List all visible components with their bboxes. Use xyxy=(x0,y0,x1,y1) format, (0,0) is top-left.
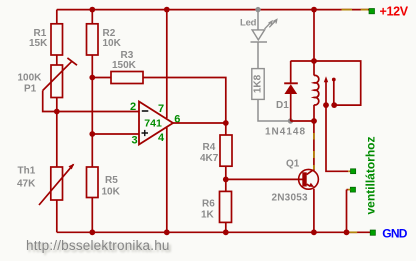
node R5 rail junction xyxy=(89,229,95,235)
node pin4 rail junction xyxy=(164,229,170,235)
watermark bsselektronika.hu xyxy=(26,238,172,255)
wire R3 right feedback xyxy=(143,78,226,124)
wire R2 bottom xyxy=(91,55,93,78)
wire pin7 supply xyxy=(166,10,168,119)
svg-text:2N3053: 2N3053 xyxy=(272,192,308,203)
wire pin3 net xyxy=(92,133,139,135)
wire R5 bottom xyxy=(91,198,93,233)
wire R4 bottom xyxy=(225,166,227,179)
relay contact fixed xyxy=(332,78,336,106)
wire D1 anode xyxy=(290,93,292,121)
node P1/Th1/pin2 junction xyxy=(54,109,60,115)
terminal GND xyxy=(370,226,408,240)
wire R1 top xyxy=(56,10,58,24)
node R6 rail junction xyxy=(223,229,229,235)
node contact2 junction xyxy=(331,102,337,108)
op-amp U1 741 xyxy=(130,101,180,147)
wire 1K8 bottom xyxy=(258,99,291,121)
svg-text:7: 7 xyxy=(158,103,164,115)
node LED/D1 junction xyxy=(288,118,293,123)
terminal fan - xyxy=(350,187,355,192)
wire R3 left xyxy=(92,77,111,79)
svg-text:R5: R5 xyxy=(105,175,118,186)
resistor R3 150K xyxy=(111,50,143,83)
resistor R2 10K xyxy=(87,24,122,55)
wire R6 bottom xyxy=(225,222,227,232)
svg-text:15K: 15K xyxy=(29,38,48,49)
svg-text:100K: 100K xyxy=(18,73,43,84)
resistor R1 15K xyxy=(29,24,63,55)
potentiometer P1 100K xyxy=(18,58,78,98)
svg-text:Th1: Th1 xyxy=(18,165,36,176)
wire op-amp output xyxy=(173,122,226,124)
resistor R6 1K xyxy=(201,191,232,222)
node R4/R6/base junction xyxy=(223,177,229,183)
svg-text:4K7: 4K7 xyxy=(200,153,219,164)
wire D1 anode to coil bottom xyxy=(291,120,315,122)
wire P1 bottom xyxy=(56,98,58,112)
terminal +12V xyxy=(369,4,409,18)
wire pin2 net xyxy=(57,111,139,113)
svg-text:1K: 1K xyxy=(201,210,215,221)
node relay coil/contact junction xyxy=(311,58,317,64)
svg-text:GND: GND xyxy=(382,226,408,240)
svg-text:1K8: 1K8 xyxy=(253,74,264,93)
wire D1 cathode xyxy=(290,61,292,83)
svg-text:ventillátorhoz: ventillátorhoz xyxy=(364,136,378,214)
wire LED anode xyxy=(257,10,259,30)
wire D1 top link xyxy=(291,60,315,62)
svg-text:741: 741 xyxy=(144,117,162,129)
svg-text:3: 3 xyxy=(132,135,138,147)
node R2 top rail junction xyxy=(89,7,95,13)
node pin3 junction xyxy=(89,131,95,137)
wire pin3 column xyxy=(91,78,93,135)
node pin7 rail junction xyxy=(164,7,170,13)
svg-text:1N4148: 1N4148 xyxy=(265,126,306,137)
node contact1 junction xyxy=(323,102,329,108)
svg-text:47K: 47K xyxy=(17,179,36,190)
svg-text:R4: R4 xyxy=(203,142,216,153)
wire R2 top xyxy=(91,10,93,24)
wire pin4 supply xyxy=(166,127,168,232)
wire LED cathode to 1K8 xyxy=(257,42,259,69)
svg-text:http://bsselektronika.hu: http://bsselektronika.hu xyxy=(26,238,170,253)
wire top +12V rail xyxy=(57,9,369,11)
svg-text:2: 2 xyxy=(130,101,136,113)
node relay top rail junction xyxy=(311,7,317,13)
node R2/R3 junction xyxy=(89,75,95,81)
node fan rail junction xyxy=(344,229,350,235)
LED Led xyxy=(240,18,277,42)
svg-text:Q1: Q1 xyxy=(286,159,300,170)
node coil bottom junction xyxy=(311,118,317,124)
node emitter rail junction xyxy=(311,229,317,235)
relay contact armature xyxy=(324,76,328,105)
wire fan terminal 2 to rail xyxy=(347,190,351,233)
svg-text:10K: 10K xyxy=(103,38,122,49)
wire relay column top xyxy=(313,10,315,61)
resistor R4 4K7 xyxy=(200,135,232,166)
wire junction to Th1 xyxy=(56,112,58,168)
svg-text:+12V: +12V xyxy=(380,4,409,18)
svg-text:R6: R6 xyxy=(202,199,215,210)
svg-text:Led: Led xyxy=(240,18,257,29)
svg-text:P1: P1 xyxy=(24,84,37,95)
svg-text:D1: D1 xyxy=(276,100,289,111)
diode D1 1N4148 xyxy=(265,83,306,137)
resistor 1K8 xyxy=(252,69,264,100)
transistor Q1 2N3053 xyxy=(272,159,319,204)
wire bottom GND rail xyxy=(57,231,370,233)
wire contact1 to fan terminal xyxy=(326,105,350,171)
wire Q1 base xyxy=(226,178,303,180)
wire Q1 emitter xyxy=(313,189,315,233)
wire Q1 collector xyxy=(313,121,315,171)
wire P1 wiper xyxy=(43,91,57,112)
svg-text:4: 4 xyxy=(158,132,165,144)
node LED rail junction xyxy=(255,7,260,12)
svg-text:150K: 150K xyxy=(112,60,137,71)
wire R4 top xyxy=(225,123,227,135)
thermistor Th1 47K xyxy=(17,164,74,205)
terminal fan + xyxy=(351,169,356,174)
svg-text:10K: 10K xyxy=(102,186,121,197)
resistor R5 10K xyxy=(87,167,121,198)
node output/R3/R4 junction xyxy=(223,120,229,126)
wire pin3 to R5 xyxy=(91,134,93,167)
wire Th1 bottom xyxy=(56,200,58,232)
relay coil K1 xyxy=(314,61,319,121)
wire R6 top xyxy=(225,179,227,191)
wire R1 to P1 xyxy=(56,55,58,65)
label ventillatorhoz xyxy=(364,136,378,214)
wire relay contact loop xyxy=(314,61,361,105)
